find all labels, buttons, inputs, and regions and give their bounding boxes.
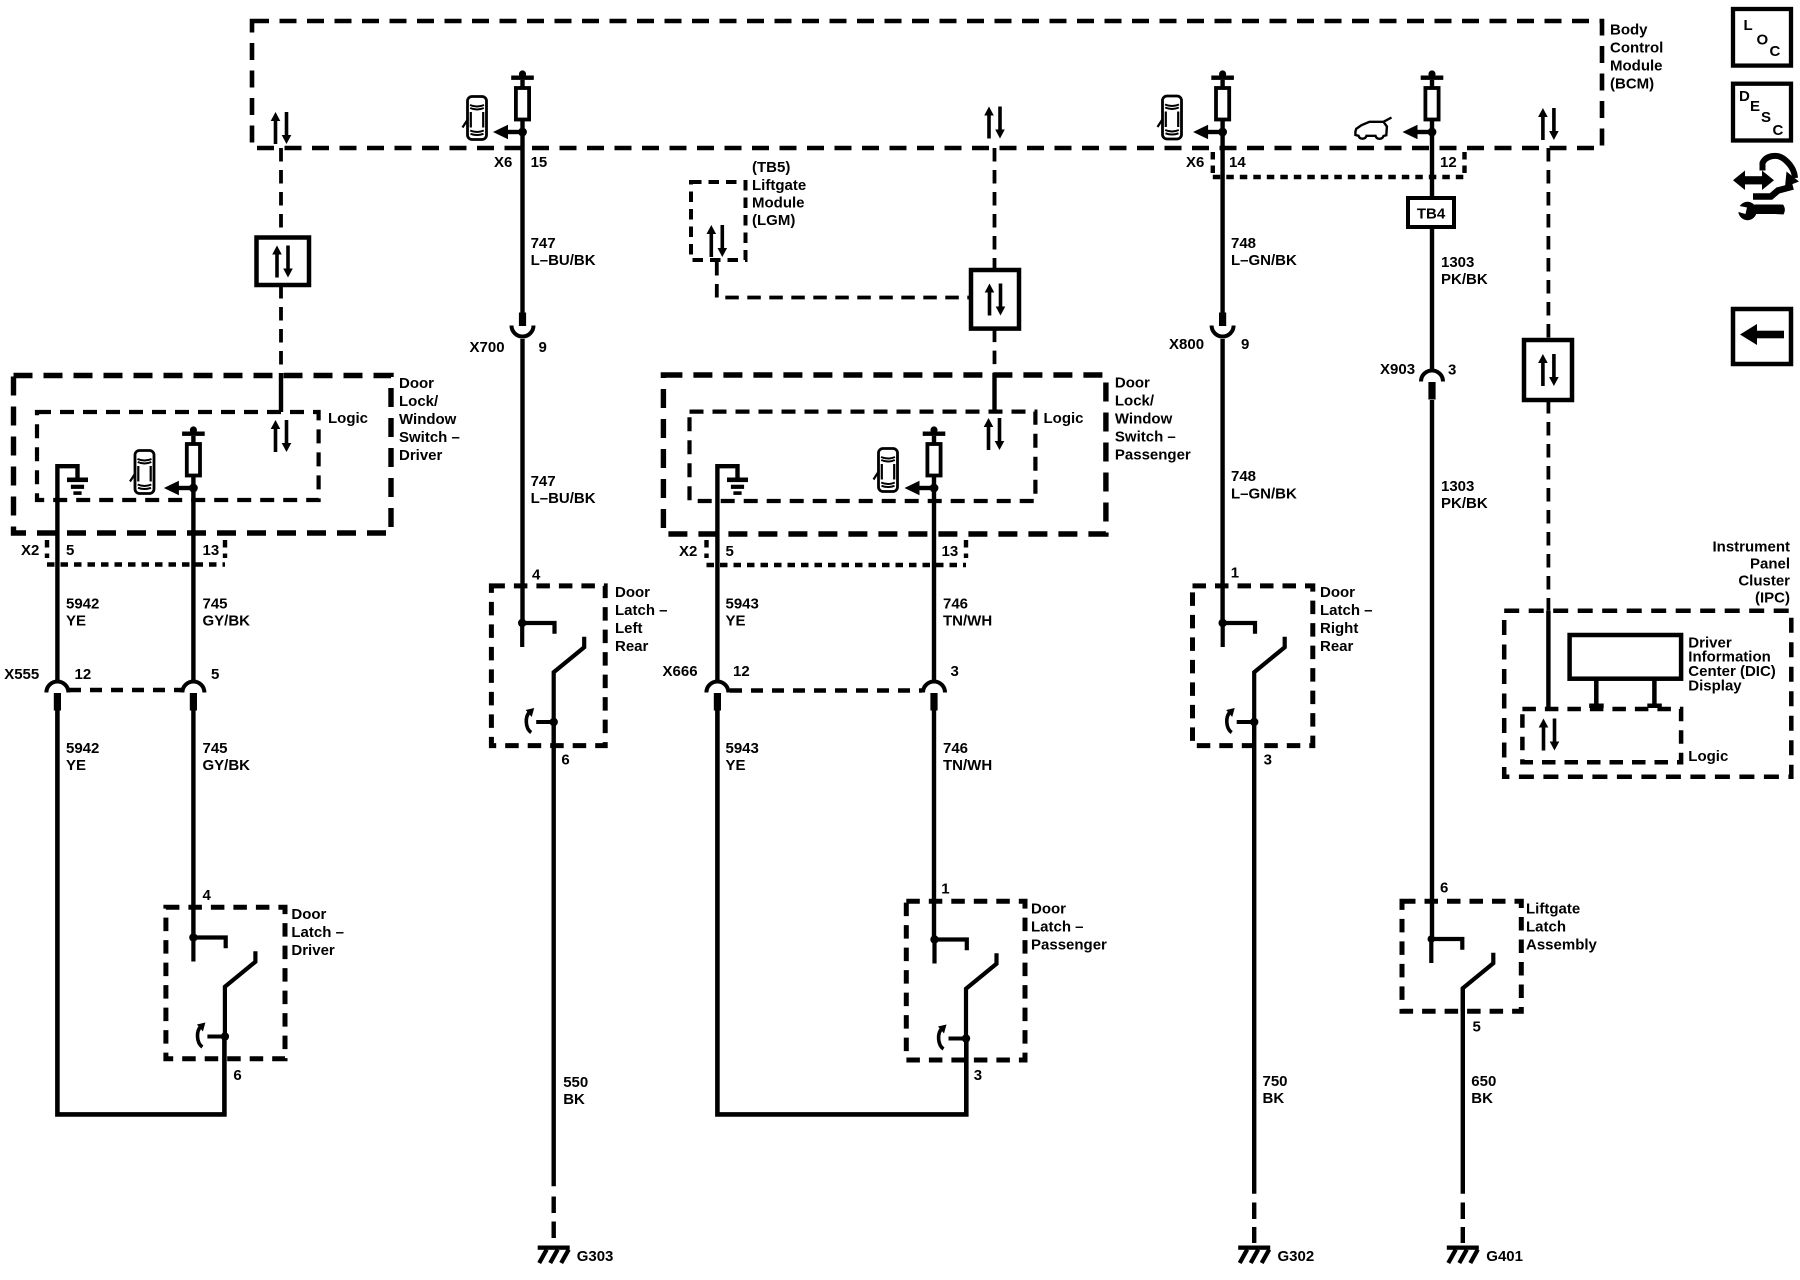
svg-text:Door: Door (1115, 375, 1150, 392)
svg-text:L–GN/BK: L–GN/BK (1231, 486, 1297, 503)
svg-text:Body: Body (1610, 22, 1648, 39)
svg-text:Window: Window (1115, 411, 1173, 428)
svg-text:Latch –: Latch – (1320, 602, 1373, 619)
svg-text:5943: 5943 (726, 740, 759, 757)
svg-text:Liftgate: Liftgate (1526, 901, 1580, 918)
svg-text:BK: BK (1263, 1090, 1285, 1107)
svg-text:Window: Window (399, 411, 457, 428)
svg-text:D: D (1739, 88, 1750, 105)
svg-text:5: 5 (66, 542, 74, 559)
svg-text:13: 13 (942, 543, 959, 560)
svg-text:747: 747 (531, 235, 556, 252)
svg-text:G303: G303 (577, 1248, 614, 1265)
svg-text:PK/BK: PK/BK (1441, 495, 1488, 512)
svg-text:Latch –: Latch – (615, 602, 668, 619)
svg-text:YE: YE (66, 613, 86, 630)
svg-text:Latch –: Latch – (291, 924, 344, 941)
svg-text:X6: X6 (494, 154, 512, 171)
svg-text:3: 3 (1448, 362, 1456, 379)
svg-text:6: 6 (561, 752, 569, 769)
svg-text:6: 6 (233, 1067, 241, 1084)
svg-text:Door: Door (291, 906, 326, 923)
svg-text:Door: Door (399, 375, 434, 392)
svg-text:X700: X700 (470, 339, 505, 356)
svg-text:X903: X903 (1380, 361, 1415, 378)
svg-text:3: 3 (1264, 752, 1272, 769)
svg-text:Latch –: Latch – (1031, 919, 1084, 936)
svg-text:12: 12 (1440, 154, 1457, 171)
svg-text:Rear: Rear (615, 638, 649, 655)
svg-text:13: 13 (203, 542, 220, 559)
svg-text:Door: Door (615, 584, 650, 601)
svg-text:Control: Control (1610, 40, 1663, 57)
svg-text:L–BU/BK: L–BU/BK (531, 490, 596, 507)
svg-text:6: 6 (1440, 880, 1448, 897)
svg-text:748: 748 (1231, 468, 1256, 485)
svg-text:650: 650 (1471, 1073, 1496, 1090)
svg-text:747: 747 (531, 473, 556, 490)
svg-text:550: 550 (563, 1074, 588, 1091)
svg-text:Cluster: Cluster (1738, 573, 1790, 590)
svg-text:Switch –: Switch – (399, 429, 460, 446)
svg-text:X2: X2 (679, 543, 697, 560)
svg-text:Panel: Panel (1750, 556, 1790, 573)
svg-text:S: S (1761, 109, 1771, 126)
svg-text:Assembly: Assembly (1526, 937, 1598, 954)
svg-text:G401: G401 (1486, 1248, 1523, 1265)
svg-text:YE: YE (726, 757, 746, 774)
svg-text:L–BU/BK: L–BU/BK (531, 252, 596, 269)
svg-text:(LGM): (LGM) (752, 212, 795, 229)
svg-text:Logic: Logic (1044, 410, 1084, 427)
svg-text:X2: X2 (21, 542, 39, 559)
svg-text:TN/WH: TN/WH (943, 757, 992, 774)
svg-text:Logic: Logic (1688, 748, 1728, 765)
svg-text:745: 745 (203, 596, 228, 613)
svg-text:Module: Module (1610, 58, 1663, 75)
svg-text:X666: X666 (663, 663, 698, 680)
svg-text:PK/BK: PK/BK (1441, 271, 1488, 288)
svg-text:L: L (1744, 17, 1753, 34)
svg-text:5943: 5943 (726, 596, 759, 613)
svg-text:X555: X555 (4, 666, 39, 683)
svg-text:5942: 5942 (66, 740, 99, 757)
svg-text:Passenger: Passenger (1031, 937, 1107, 954)
svg-text:Lock/: Lock/ (399, 393, 439, 410)
svg-text:O: O (1757, 32, 1769, 49)
svg-text:E: E (1750, 98, 1760, 115)
svg-text:YE: YE (726, 613, 746, 630)
svg-text:5: 5 (1473, 1019, 1481, 1036)
svg-text:Display: Display (1688, 678, 1742, 695)
svg-text:Logic: Logic (328, 410, 368, 427)
svg-text:3: 3 (974, 1067, 982, 1084)
svg-text:Lock/: Lock/ (1115, 393, 1155, 410)
svg-text:GY/BK: GY/BK (203, 757, 251, 774)
svg-text:L–GN/BK: L–GN/BK (1231, 252, 1297, 269)
svg-text:746: 746 (943, 596, 968, 613)
svg-text:3: 3 (951, 663, 959, 680)
svg-text:746: 746 (943, 740, 968, 757)
svg-text:4: 4 (203, 887, 212, 904)
svg-text:745: 745 (203, 740, 228, 757)
svg-text:Liftgate: Liftgate (752, 177, 806, 194)
svg-text:C: C (1770, 43, 1781, 60)
svg-text:5: 5 (211, 666, 219, 683)
svg-text:X6: X6 (1186, 154, 1204, 171)
svg-text:5: 5 (726, 543, 734, 560)
svg-text:BK: BK (563, 1091, 585, 1108)
svg-text:1: 1 (941, 881, 949, 898)
svg-text:1: 1 (1231, 565, 1239, 582)
svg-text:748: 748 (1231, 235, 1256, 252)
svg-text:BK: BK (1471, 1090, 1493, 1107)
svg-text:Left: Left (615, 620, 643, 637)
svg-text:4: 4 (532, 567, 541, 584)
svg-text:GY/BK: GY/BK (203, 613, 251, 630)
svg-text:Driver: Driver (291, 942, 335, 959)
svg-text:14: 14 (1229, 154, 1246, 171)
svg-text:12: 12 (75, 666, 92, 683)
svg-text:Switch –: Switch – (1115, 429, 1176, 446)
svg-text:G302: G302 (1278, 1248, 1315, 1265)
svg-text:(BCM): (BCM) (1610, 76, 1654, 93)
svg-text:1303: 1303 (1441, 478, 1474, 495)
svg-text:TN/WH: TN/WH (943, 613, 992, 630)
svg-text:YE: YE (66, 757, 86, 774)
svg-text:Latch: Latch (1526, 919, 1566, 936)
svg-text:X800: X800 (1169, 336, 1204, 353)
svg-text:Right: Right (1320, 620, 1358, 637)
svg-text:12: 12 (733, 663, 750, 680)
svg-text:Module: Module (752, 195, 805, 212)
svg-text:9: 9 (539, 339, 547, 356)
svg-text:(IPC): (IPC) (1755, 590, 1790, 607)
svg-text:TB4: TB4 (1417, 206, 1446, 223)
svg-text:15: 15 (531, 154, 548, 171)
svg-text:Instrument: Instrument (1712, 539, 1790, 556)
svg-text:C: C (1773, 122, 1784, 139)
svg-text:1303: 1303 (1441, 254, 1474, 271)
svg-text:(TB5): (TB5) (752, 159, 790, 176)
svg-text:Passenger: Passenger (1115, 447, 1191, 464)
svg-text:Door: Door (1320, 584, 1355, 601)
svg-text:5942: 5942 (66, 596, 99, 613)
svg-text:750: 750 (1263, 1073, 1288, 1090)
svg-text:Driver: Driver (399, 447, 443, 464)
svg-text:9: 9 (1241, 336, 1249, 353)
svg-text:Door: Door (1031, 901, 1066, 918)
svg-text:Rear: Rear (1320, 638, 1354, 655)
